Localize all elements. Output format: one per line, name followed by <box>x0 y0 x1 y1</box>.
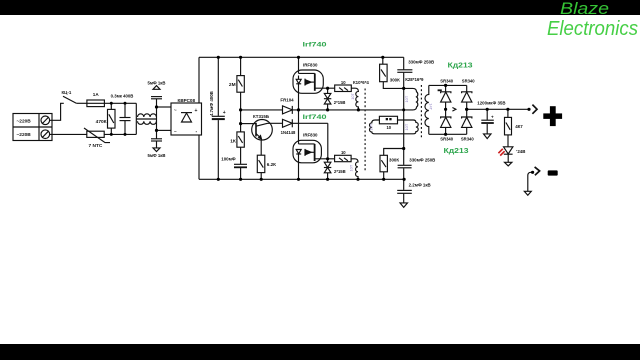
svg-text:Blaze: Blaze <box>560 0 609 18</box>
svg-text:'24В: '24В <box>516 149 525 154</box>
svg-text:10: 10 <box>341 150 346 155</box>
svg-text:SR340: SR340 <box>461 137 474 142</box>
svg-text:Irf740: Irf740 <box>303 41 328 48</box>
svg-text:100мФ: 100мФ <box>221 157 236 162</box>
svg-text:Electronics: Electronics <box>547 18 638 40</box>
svg-text:10Т: 10Т <box>350 92 355 99</box>
svg-text:2*15В: 2*15В <box>334 100 346 105</box>
svg-text:~: ~ <box>174 108 177 113</box>
svg-text:1200мкФ 35В: 1200мкФ 35В <box>477 101 505 106</box>
svg-text:+: + <box>195 108 198 114</box>
svg-text:КВРС08: КВРС08 <box>178 98 196 103</box>
svg-text:7 NTC: 7 NTC <box>89 143 103 149</box>
svg-text:SR340: SR340 <box>440 79 453 84</box>
svg-text:IRF830: IRF830 <box>303 133 318 138</box>
svg-text:КТ315Б: КТ315Б <box>253 114 269 119</box>
svg-text:SR340: SR340 <box>462 79 475 84</box>
svg-text:0.3мк 400В: 0.3мк 400В <box>111 93 134 98</box>
svg-text:К10*6*4: К10*6*4 <box>353 80 369 85</box>
svg-text:SR340: SR340 <box>440 137 453 142</box>
svg-text:~: ~ <box>174 129 177 134</box>
svg-text:10Т: 10Т <box>368 123 373 130</box>
svg-text:IRF830: IRF830 <box>303 62 318 67</box>
svg-text:2*15В: 2*15В <box>334 169 346 174</box>
svg-text:FR104: FR104 <box>280 98 294 103</box>
svg-text:5мФ 1кВ: 5мФ 1кВ <box>147 80 165 85</box>
svg-text:10Т: 10Т <box>404 95 409 102</box>
svg-text:10: 10 <box>341 80 346 85</box>
svg-text:К28*16*9: К28*16*9 <box>405 77 424 82</box>
svg-text:КЦ-1: КЦ-1 <box>62 90 72 95</box>
svg-text:470К: 470К <box>96 119 107 125</box>
svg-text:4К7: 4К7 <box>515 124 523 129</box>
svg-text:+: + <box>491 114 494 119</box>
svg-text:~220В: ~220В <box>17 132 32 138</box>
svg-text:300К: 300К <box>390 77 400 82</box>
svg-text:Кд213: Кд213 <box>444 146 469 155</box>
svg-text:1N4148: 1N4148 <box>281 130 296 135</box>
svg-text:330мФ 250В: 330мФ 250В <box>408 60 434 65</box>
svg-text:1А: 1А <box>93 92 100 97</box>
svg-text:4.7мФ 400В: 4.7мФ 400В <box>209 91 214 116</box>
svg-text:Irf740: Irf740 <box>303 114 328 121</box>
svg-text:1К: 1К <box>230 139 236 145</box>
svg-text:10: 10 <box>386 125 391 130</box>
svg-text:+: + <box>223 110 226 116</box>
svg-text:~220В: ~220В <box>17 118 32 124</box>
svg-text:14Т: 14Т <box>429 103 434 110</box>
svg-text:10Т: 10Т <box>404 123 409 130</box>
svg-text:6.2К: 6.2К <box>267 162 276 167</box>
svg-text:300К: 300К <box>389 157 399 162</box>
svg-text:5мФ 1кВ: 5мФ 1кВ <box>147 153 165 158</box>
svg-text:10Т: 10Т <box>348 164 353 171</box>
svg-text:2М: 2М <box>229 82 236 88</box>
svg-text:Кд213: Кд213 <box>448 61 473 70</box>
svg-text:2.2мФ 1кВ: 2.2мФ 1кВ <box>409 182 431 187</box>
svg-text:330мФ 250В: 330мФ 250В <box>409 157 435 162</box>
